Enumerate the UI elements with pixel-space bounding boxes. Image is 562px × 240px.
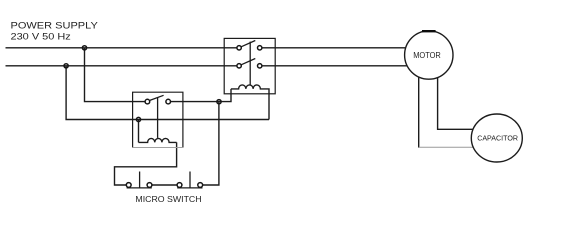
contactor K2 pole2 contact right (258, 64, 262, 68)
contactor K2 pole1 contact left (237, 46, 241, 50)
micro switch SW1 blade (127, 187, 152, 189)
micro switch SW2 blade (177, 187, 202, 189)
relay K1 switch blade (150, 95, 164, 100)
node J3 (217, 100, 221, 104)
motor M1 top chord mark (422, 30, 436, 32)
micro switch SW2 plunger (189, 172, 191, 188)
node J2 (64, 64, 68, 68)
relay K1 contact left (145, 99, 150, 104)
micro switch SW1 contact left (126, 183, 131, 188)
svg-text:230 V 50 Hz: 230 V 50 Hz (11, 32, 72, 43)
wire relay switch output to node J3 (171, 101, 220, 103)
wire L2 supply line bottom left segment (6, 65, 237, 67)
wire from node J2 down to node J4 (66, 66, 138, 120)
wire node J4 down to relay coil (138, 120, 140, 143)
contactor K2 blade pole 1 (241, 41, 255, 47)
wire contactor coil right lead to node J4 (139, 119, 270, 121)
micro switch SW1 contact right (147, 183, 152, 188)
wire relay coil right lead down to micro switch (115, 142, 177, 185)
wire motor to capacitor bottom lead (thin) (419, 146, 474, 148)
motor M1 circle (405, 31, 453, 79)
capacitor C1 circle (471, 114, 522, 162)
contactor K2 blade pole 2 (241, 59, 255, 65)
wire from node J1 down to relay switch (85, 48, 146, 102)
micro switch SW2 contact left (177, 183, 182, 188)
coil K2 contactor coil (231, 85, 269, 120)
node J4 (136, 117, 140, 121)
contactor K2 pole1 contact right (258, 46, 262, 50)
micro switch SW2 contact right (198, 183, 203, 188)
relay K1 box (133, 92, 183, 147)
wire motor terminal to capacitor top lead (438, 78, 474, 130)
wire L2 supply line bottom right segment to motor (262, 65, 407, 67)
svg-text:MICRO SWITCH: MICRO SWITCH (135, 195, 201, 203)
contactor K2 box (224, 38, 275, 93)
wire L1 supply line top left segment (6, 47, 237, 49)
node J1 (82, 46, 86, 50)
micro switch SW1 plunger (139, 172, 141, 188)
wire motor lower terminal down to capacitor (vertical) (418, 77, 420, 148)
wire between micro switch poles (152, 184, 177, 186)
svg-text:POWER SUPPLY: POWER SUPPLY (11, 20, 99, 31)
wire node J3 up to contactor coil left lead (219, 89, 231, 102)
svg-text:MOTOR: MOTOR (413, 51, 441, 60)
wire L1 supply line top right segment to motor (262, 47, 406, 49)
contactor K2 pole2 contact left (237, 64, 241, 68)
wire micro switch output up to node J3 (203, 102, 219, 185)
svg-text:CAPACITOR: CAPACITOR (477, 134, 518, 143)
relay K1 contact right (166, 99, 171, 104)
relay K1 actuator link (157, 97, 159, 138)
relay K1 box bottom edge (thin) (133, 147, 183, 149)
contactor K2 actuator link (249, 42, 251, 85)
coil K1 relay coil (139, 138, 177, 142)
